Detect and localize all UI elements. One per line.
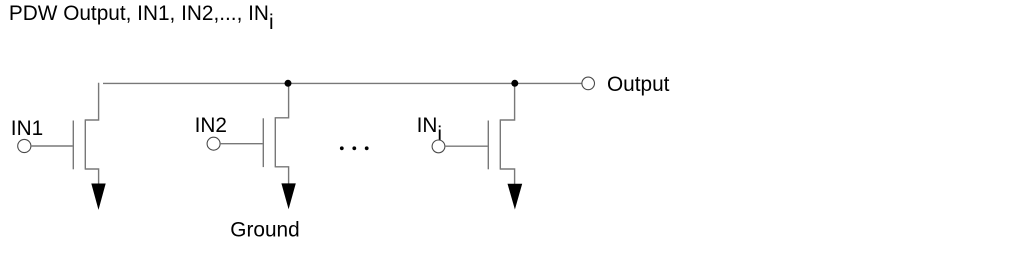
ground arrow under Q1	[91, 184, 105, 210]
ground arrow under Q2	[281, 183, 295, 209]
label Output	[607, 73, 670, 96]
wire: IN2 gate lead	[220, 143, 263, 145]
title label: PDW Output, IN1, IN2,..., INi	[9, 2, 274, 34]
wire: output bus (horizontal)	[103, 82, 582, 84]
terminal: IN2 input open circle	[207, 137, 220, 150]
wire: Q1 drain to output bus	[85, 83, 98, 120]
transistor Q2 gate plate	[262, 118, 264, 167]
transistor Q2 channel	[274, 117, 276, 167]
wire: Q2 drain to junction	[275, 83, 288, 117]
label INi	[417, 114, 442, 146]
terminal: INi input open circle	[432, 140, 445, 153]
svg-text:Ground: Ground	[230, 219, 299, 242]
wire: Q3 source to ground	[500, 169, 514, 184]
node: junction dot at Q3 drain	[511, 80, 518, 87]
label IN2	[195, 114, 227, 137]
transistor Q1 channel	[84, 119, 86, 169]
terminal: Output open circle	[582, 77, 595, 90]
svg-text:PDW Output, IN1, IN2,..., INi: PDW Output, IN1, IN2,..., INi	[9, 2, 274, 34]
label IN1	[11, 117, 43, 140]
terminal: IN1 input open circle	[18, 139, 31, 152]
svg-text:IN1: IN1	[11, 117, 43, 140]
svg-text:IN2: IN2	[195, 114, 227, 137]
wire: Q3 drain to junction	[500, 83, 514, 120]
label Ground	[230, 219, 299, 242]
ellipsis dots between Q2 and Q3	[340, 146, 369, 150]
wire: IN1 gate lead	[31, 145, 73, 147]
wire: Q1 source to ground	[85, 169, 98, 184]
node: junction dot at Q2 drain	[285, 80, 292, 87]
svg-text:Output: Output	[607, 73, 670, 96]
transistor Q3 channel	[499, 119, 501, 169]
transistor Q3 gate plate	[487, 121, 489, 170]
wire: Q2 source to ground	[275, 167, 288, 184]
ground arrow under Q3	[508, 184, 523, 210]
wire: INi gate lead	[445, 145, 488, 147]
transistor Q1 gate plate	[72, 121, 74, 170]
